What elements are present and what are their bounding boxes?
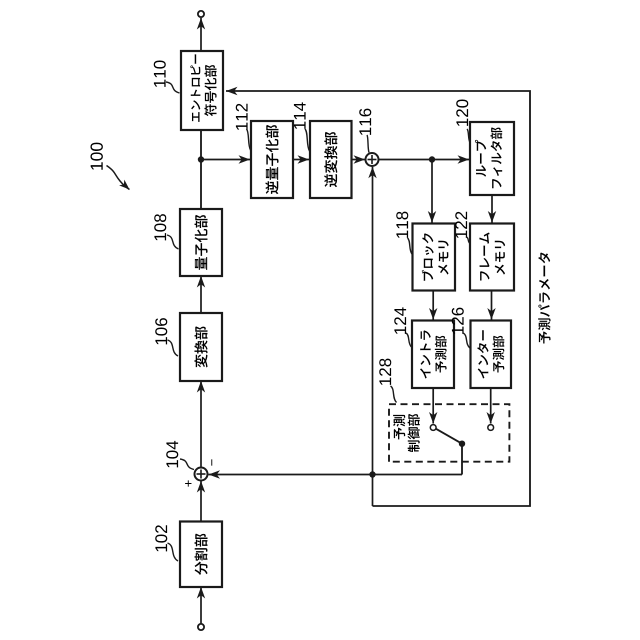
block 124 intra predictor <box>412 321 454 389</box>
text 120 line1 <box>475 140 486 177</box>
leader 112 <box>247 129 251 150</box>
label 114 <box>294 102 306 129</box>
label 110 <box>154 61 166 87</box>
block 110 entropy coder <box>181 51 223 130</box>
plus sign at 104 <box>185 480 191 486</box>
text 110 line1 <box>190 54 200 122</box>
wire 124 to switch contact a <box>432 388 434 424</box>
leader 126 <box>463 333 470 348</box>
text 128 line1 <box>393 415 405 439</box>
label 118 <box>396 212 408 238</box>
text 122 line2 <box>495 241 505 275</box>
text 102 <box>195 534 208 575</box>
block 106 transformer <box>180 313 222 381</box>
leader 116 <box>367 135 369 153</box>
text 106 <box>194 326 207 367</box>
wire node to inverse quantizer 112 <box>201 159 250 161</box>
label 116 <box>359 109 371 135</box>
wire 102 to subtractor 104 <box>200 481 202 522</box>
leader 108 <box>167 235 179 249</box>
wire switch pole to corner <box>461 444 463 475</box>
label 124 <box>394 307 406 334</box>
wire 118 to intra predictor 124 <box>432 291 434 320</box>
label 112 <box>236 104 248 130</box>
text 110 line2 <box>204 65 216 116</box>
text 124 line1 <box>420 330 431 378</box>
wire prediction to adder 116 <box>372 167 374 506</box>
switch pole dot <box>459 441 465 447</box>
switch contact b <box>488 425 494 431</box>
leader 122 <box>467 237 471 244</box>
wire 106 to quantizer 108 <box>200 276 202 313</box>
wire 104 to transformer 106 <box>200 381 202 467</box>
text 120 line2 <box>491 127 503 188</box>
label 104 <box>166 441 178 468</box>
wire 112 to inverse transformer 114 <box>293 159 309 161</box>
leader 114 <box>305 129 310 151</box>
leader 106 <box>168 340 179 356</box>
wire feedback up to subtractor 104 <box>209 474 463 476</box>
input terminal <box>198 624 204 630</box>
label prediction parameter <box>538 252 550 343</box>
text 128 line2 <box>408 414 420 452</box>
text 108 <box>195 215 208 270</box>
block 108 quantizer <box>180 209 222 276</box>
block 126 inter predictor <box>471 321 512 389</box>
subtractor 104 <box>195 468 208 481</box>
leader 102 <box>168 543 179 561</box>
leader 120 <box>467 129 470 143</box>
text 126 line2 <box>493 336 505 373</box>
leader 118 <box>408 238 413 254</box>
label 128 <box>379 359 391 385</box>
wire 110 to output <box>200 18 202 51</box>
block 102 divider <box>180 522 222 588</box>
output terminal <box>198 11 204 17</box>
leader 124 <box>406 333 412 347</box>
junction on feedback line <box>369 471 375 477</box>
text 118 line1 <box>422 233 434 281</box>
wire 126 to switch contact b <box>490 388 492 424</box>
text 122 line1 <box>479 232 489 280</box>
switch arm <box>436 429 462 444</box>
prediction parameter path <box>226 91 530 506</box>
diagram group rotated 90deg CCW (patent landscape figure on portrait page) <box>90 11 550 630</box>
label 126 <box>452 308 464 334</box>
label 102 <box>155 525 167 551</box>
label 120 <box>456 100 468 126</box>
switch contact a <box>430 425 436 431</box>
label 122 <box>455 212 467 238</box>
adder 116 <box>366 153 379 166</box>
block 122 frame memory <box>470 224 514 291</box>
leader 128 <box>391 386 397 403</box>
node below adder 116 <box>429 156 435 162</box>
leader 110 <box>166 82 180 93</box>
wire 108 to entropy coder 110 <box>200 130 202 209</box>
wire 122 to inter predictor 126 <box>491 291 493 320</box>
node on line 108-110 <box>198 156 204 162</box>
text 114 <box>324 132 337 187</box>
label 100 <box>90 143 102 170</box>
block 128 prediction controller (dashed) <box>389 404 509 462</box>
block 114 inverse transformer <box>310 121 352 198</box>
leader arrow for 100 <box>107 166 130 190</box>
text 126 line1 <box>477 330 488 378</box>
wire 116 to loop filter 120 <box>378 159 469 161</box>
block 112 inverse quantizer <box>251 121 293 198</box>
wire input to divider 102 <box>200 587 202 624</box>
label 106 <box>155 318 167 344</box>
wire 120 to frame memory 122 <box>491 195 493 223</box>
label 108 <box>154 214 166 240</box>
text 118 line2 <box>438 241 448 275</box>
wire node to block memory 118 <box>431 160 433 223</box>
leader 104 <box>180 459 194 470</box>
text 112 <box>265 125 278 194</box>
block 118 block memory <box>413 224 456 291</box>
minus sign at 104 <box>210 459 213 465</box>
text 124 line2 <box>435 336 447 373</box>
wire 114 to adder 116 <box>352 159 366 161</box>
block 120 loop filter <box>470 122 514 195</box>
